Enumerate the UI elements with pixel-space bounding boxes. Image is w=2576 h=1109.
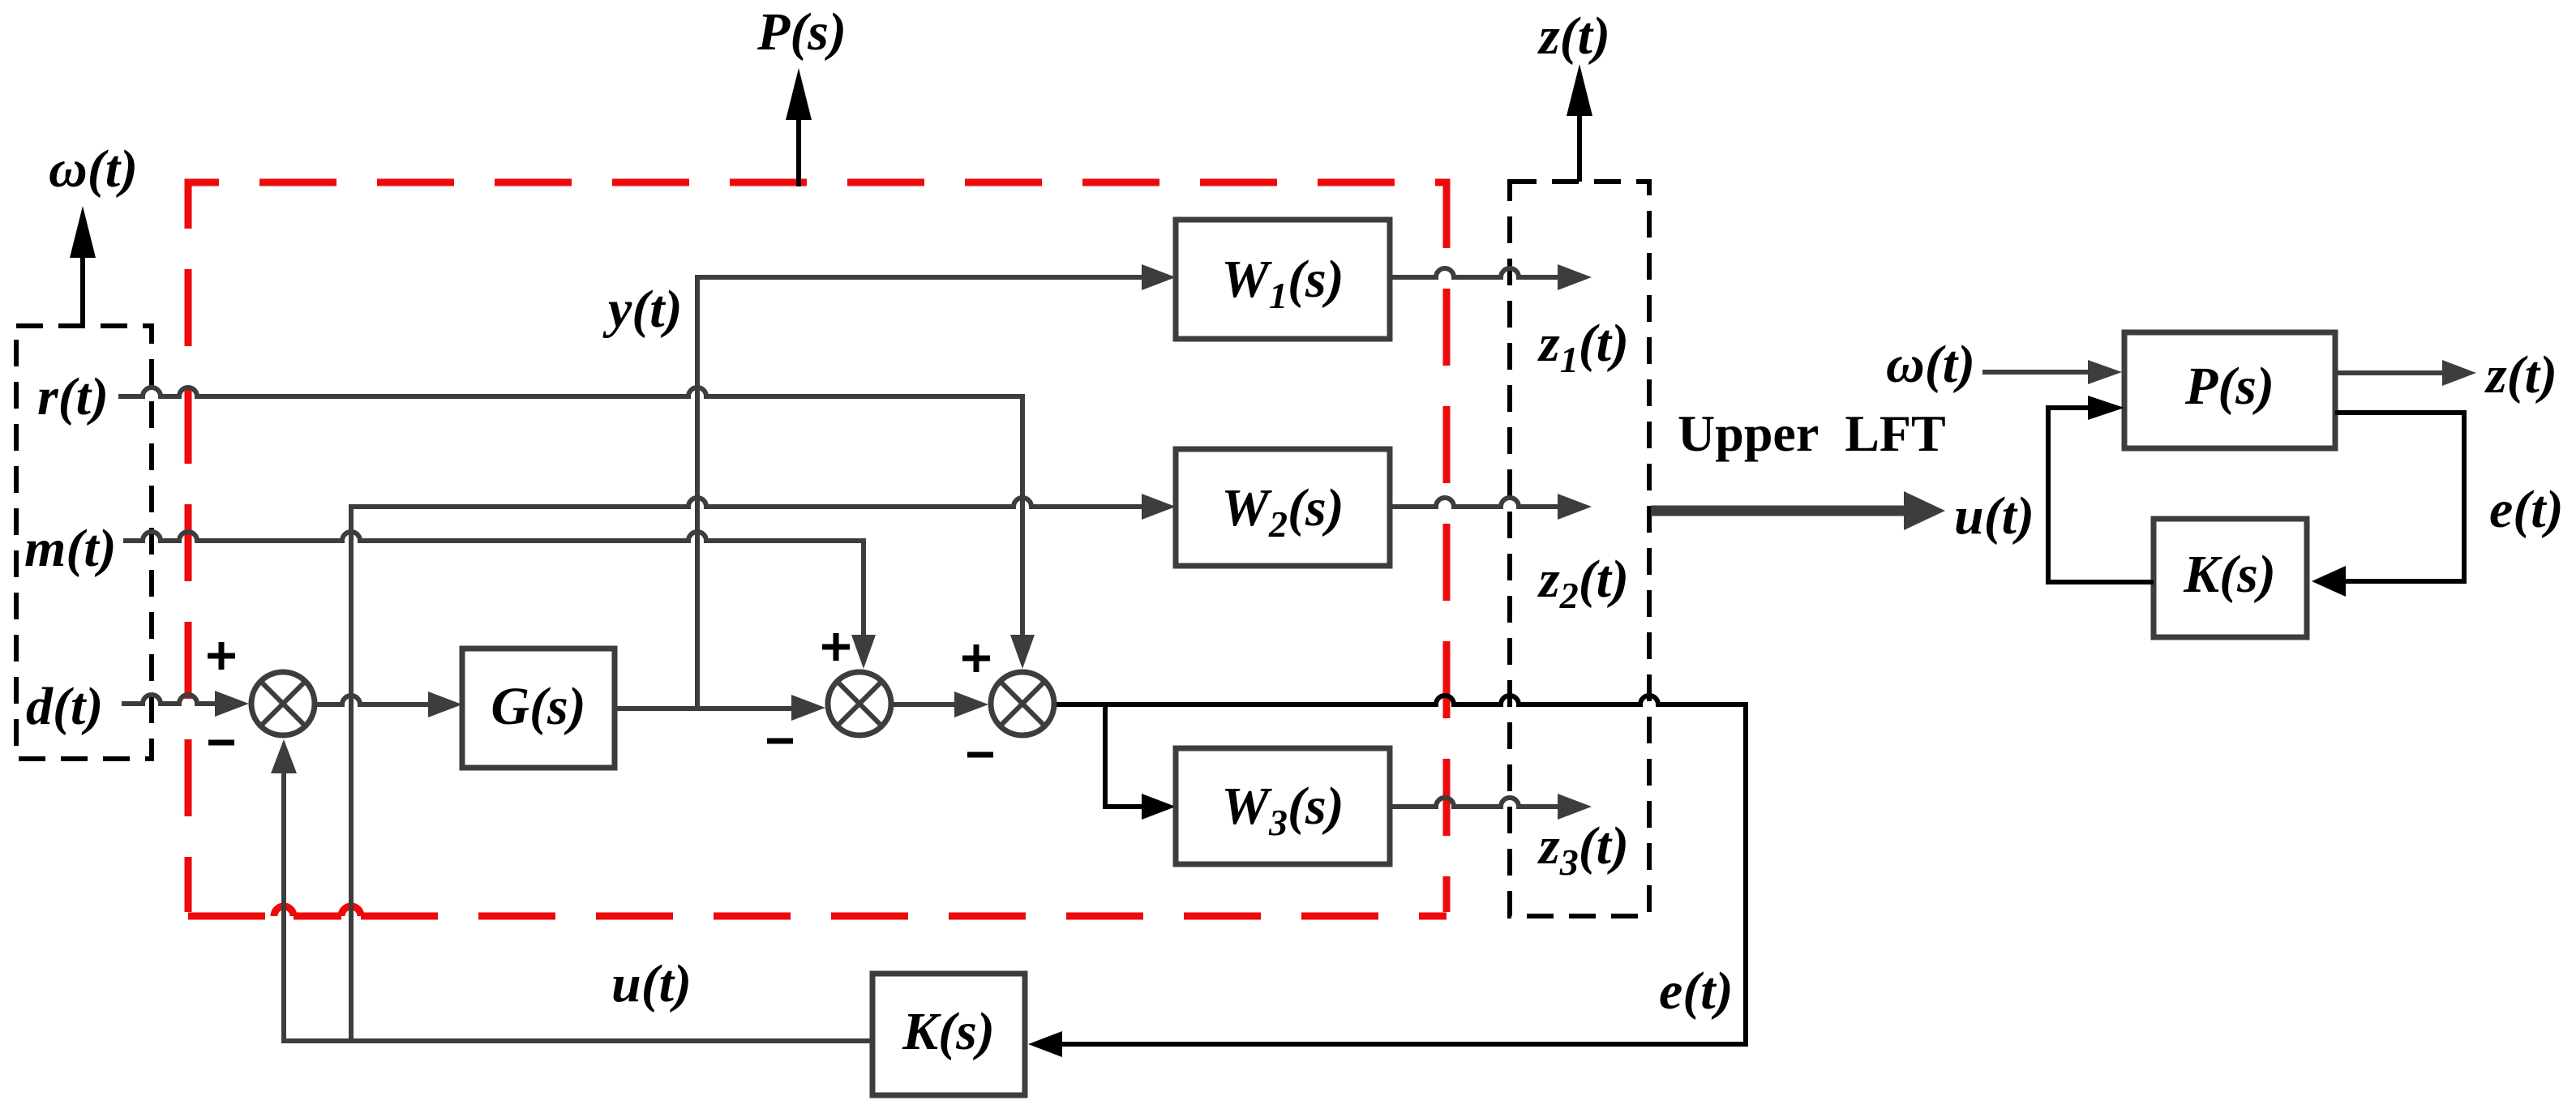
svg-text:z(t): z(t) (2484, 345, 2557, 405)
arrow z(t) upward out of output group (1567, 64, 1592, 182)
svg-text:P(s): P(s) (2184, 357, 2274, 416)
block G(s) (462, 649, 615, 768)
summer S1 (m - G) (828, 672, 891, 735)
LFT: wire z(t) out of P(s) (2335, 360, 2476, 386)
plus sign at S1 (822, 633, 850, 661)
wire W3 output z3 with hops (1390, 794, 1592, 820)
LFT: wire u loop from K(s) up into P(s) (2048, 396, 2154, 582)
svg-text:K(s): K(s) (2183, 545, 2276, 604)
arrow w(t) upward out of input group (70, 206, 96, 323)
svg-text:z3(t): z3(t) (1537, 816, 1629, 883)
svg-text:z1(t): z1(t) (1537, 314, 1629, 380)
LFT: wire w(t) into P(s) (1982, 360, 2122, 384)
plus sign at S2 (962, 644, 990, 672)
wire m(t) horizontal with hops, corner down into summer S1 (123, 532, 876, 669)
block W1(s) (1176, 220, 1390, 339)
wire r(t) horizontal with hops, corner down into summer S2 (118, 388, 1035, 669)
wire d(t) into summer S0 (122, 691, 249, 717)
summer S0 (d - u) (251, 672, 315, 735)
svg-text:P(s): P(s) (757, 2, 847, 62)
wire summer S1 output into summer S2 (894, 692, 988, 717)
svg-text:z(t): z(t) (1537, 6, 1610, 66)
LFT: block P(s) (2124, 332, 2335, 448)
svg-text:u(t): u(t) (1954, 486, 2034, 546)
svg-text:e(t): e(t) (1659, 961, 1734, 1021)
minus sign at S1 (767, 739, 793, 744)
block W3(s) (1176, 748, 1390, 864)
wire u branch riser up into W2 with hops (351, 494, 1176, 1041)
minus sign at S2 (967, 752, 993, 758)
svg-text:Upper LFT: Upper LFT (1678, 405, 1946, 462)
svg-text:u(t): u(t) (611, 954, 692, 1013)
wire G(s) output into summer S1 (615, 695, 825, 721)
block K(s) controller (872, 974, 1025, 1095)
svg-text:K(s): K(s) (902, 1002, 995, 1061)
svg-text:y(t): y(t) (602, 280, 683, 339)
svg-text:d(t): d(t) (26, 677, 103, 736)
summer S2 (r - v) (991, 672, 1054, 735)
wire W2 output z2 with hops (1390, 494, 1592, 520)
svg-text:G(s): G(s) (491, 677, 585, 736)
svg-text:m(t): m(t) (24, 519, 117, 578)
plus sign at S0 (208, 642, 235, 670)
arrow P(s) upward out of red box (786, 68, 812, 186)
wire summer S0 output into plant G(s) (317, 692, 462, 717)
minus sign at S0 (208, 740, 234, 746)
wire branch into W3 from e line (1105, 704, 1176, 820)
svg-text:ω(t): ω(t) (49, 139, 138, 199)
svg-text:r(t): r(t) (37, 367, 109, 426)
wire W1 output z1 with hops (1390, 264, 1592, 290)
LFT: block K(s) (2154, 519, 2307, 637)
wire u(t) feedback from K(s) to summer S0 (271, 739, 872, 1041)
wire e(t) black loop from summer S2 right, down, into K(s) (1028, 696, 1746, 1057)
svg-text:z2(t): z2(t) (1537, 550, 1629, 616)
black dashed box: exogenous input w(t) group (16, 326, 152, 759)
black dashed box: performance output z(t) group (1510, 182, 1649, 916)
svg-text:ω(t): ω(t) (1886, 335, 1975, 394)
LFT: wire e(t) loop from P(s) down into K(s) (2312, 413, 2464, 597)
wire y(t) riser from G output up and into W1 (697, 264, 1176, 709)
red hop over node u2 riser at x=433 (341, 906, 361, 916)
red hop over node u riser at x=350 (274, 906, 294, 916)
block W2(s) (1176, 449, 1390, 566)
svg-text:e(t): e(t) (2489, 480, 2564, 539)
thick arrow u(t) to LFT diagram (1651, 491, 1945, 530)
red dashed boundary of generalized plant P(s) (188, 182, 1447, 916)
